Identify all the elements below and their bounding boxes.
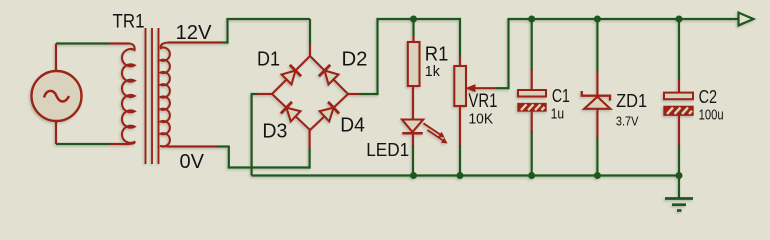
svg-text:D2: D2 [342, 47, 368, 70]
wire - bridge left corner down to ground rail [252, 93, 272, 176]
wire - VR1 bottom lead [459, 106, 461, 176]
wire - ZD1 bottom lead [596, 109, 598, 176]
svg-text:D4: D4 [340, 114, 365, 137]
svg-text:R1: R1 [425, 43, 449, 65]
wire - AC source top to transformer primary [56, 42, 129, 44]
junction - rail2 / ZD1 [594, 16, 601, 23]
transformer TR1 core [146, 28, 159, 164]
svg-text:3.7V: 3.7V [616, 113, 639, 128]
transformer TR1 primary winding [122, 44, 135, 145]
wire - C2 bottom lead [678, 115, 680, 175]
svg-text:10K: 10K [469, 111, 494, 127]
svg-text:1k: 1k [425, 64, 441, 80]
svg-text:D3: D3 [262, 119, 287, 142]
capacitor C2 [664, 93, 693, 116]
wire - ground rail (bottom) [252, 174, 679, 176]
junction - rail1 / R1 [410, 16, 417, 23]
wire - ZD1 top lead [596, 19, 598, 96]
capacitor C1 [518, 90, 546, 111]
junction - ground rail / LED1 [410, 172, 417, 179]
ground [665, 176, 693, 211]
bridge edge bottom-right [310, 94, 348, 130]
transformer TR1 secondary winding [161, 43, 170, 147]
wire - top rail 2 (output rail) [507, 18, 738, 20]
wire - R1 to LED1 [412, 86, 414, 120]
wire - AC source bottom to transformer primary [56, 143, 129, 145]
svg-text:12V: 12V [176, 21, 212, 44]
potentiometer VR1 [454, 66, 475, 106]
wire - 0V secondary lead [168, 145, 229, 147]
svg-text:LED1: LED1 [366, 140, 409, 160]
svg-text:ZD1: ZD1 [616, 90, 647, 111]
junction - ground rail / VR1 [457, 172, 464, 179]
bridge edge left-top [272, 56, 310, 94]
wire - bridge right corner up to top rail 1 [348, 19, 378, 95]
wire - rail1 down to VR1 top [459, 18, 461, 66]
bridge edge top-right [310, 56, 348, 94]
wire - VR1 wiper to top rail 2 [474, 19, 509, 89]
svg-text:VR1: VR1 [468, 91, 497, 112]
svg-text:TR1: TR1 [113, 10, 145, 32]
diode D4 [320, 102, 339, 122]
zener diode ZD1 [582, 91, 611, 109]
junction - rail2 / C1 [528, 16, 535, 23]
resistor R1 [408, 42, 420, 86]
svg-text:1u: 1u [551, 107, 565, 123]
diode D2 [319, 65, 339, 85]
wire - top rail 1 (bridge output to R1 and VR1) [376, 18, 460, 20]
junction - ground rail / ZD1 [594, 172, 601, 179]
junction - rail2 / C2 [676, 16, 683, 23]
svg-text:C1: C1 [552, 85, 570, 106]
svg-text:0V: 0V [180, 150, 205, 173]
wire - C1 bottom lead [531, 111, 533, 176]
wire - LED1 bottom lead [412, 134, 414, 176]
diode D3 [281, 102, 300, 122]
junction - ground rail / C2 / ground [676, 172, 683, 179]
svg-text:C2: C2 [699, 86, 718, 107]
svg-text:100u: 100u [699, 107, 724, 123]
wire - 12V secondary lead [168, 41, 229, 43]
wire - 0V jog to bridge bottom corner [228, 130, 310, 169]
wire - C1 top lead [531, 19, 533, 90]
svg-text:D1: D1 [257, 47, 280, 70]
junction - ground rail / C1 [528, 172, 535, 179]
diode D1 [282, 65, 302, 85]
wire - 12V up-and-over to bridge top corner [226, 19, 310, 56]
AC source V1 [32, 44, 82, 145]
wire - C2 top lead [678, 19, 680, 93]
output arrow [739, 13, 754, 26]
LED LED1 [402, 120, 448, 144]
bridge edge left-bottom [272, 94, 310, 130]
wire - R1 top lead [412, 19, 414, 42]
